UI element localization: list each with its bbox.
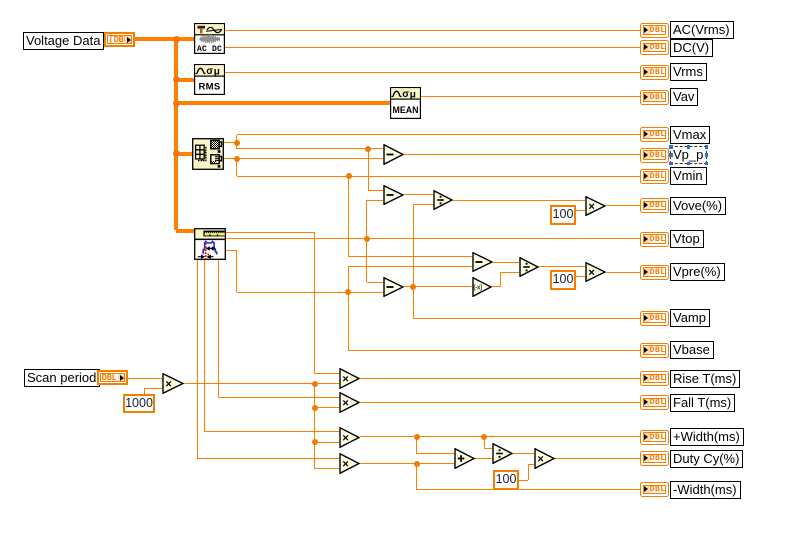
svg-text:×: × [342,432,348,444]
svg-text:μ: μ [410,90,416,101]
svg-text:×: × [342,458,348,470]
svg-text:RMS: RMS [198,82,220,93]
svg-text:σ: σ [402,89,409,100]
svg-text:σ: σ [206,66,213,77]
svg-text:MEAN: MEAN [393,105,419,115]
svg-text:×: × [537,453,543,465]
svg-text:×: × [588,267,594,279]
svg-text:×: × [342,373,348,385]
svg-text:(-x): (-x) [473,285,482,292]
svg-text:μ: μ [214,67,220,78]
svg-text:AC DC: AC DC [197,45,222,54]
svg-text:×: × [342,397,348,409]
svg-text:×: × [588,200,594,212]
svg-text:×: × [165,378,171,390]
